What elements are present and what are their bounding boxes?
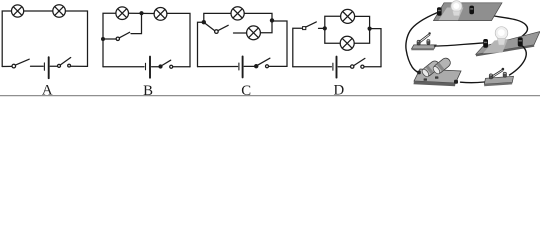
- circuit A: [2, 5, 87, 79]
- wire: C lamp L1 to right riser: [244, 13, 272, 18]
- switch K2 lever (open): [492, 68, 505, 78]
- node: C right junction: [270, 18, 274, 22]
- switch S2 (B) contact: [170, 65, 173, 68]
- wire: A bottom left stub: [2, 65, 12, 67]
- battery cell 2: [432, 56, 452, 75]
- pictorial circuit (right): [406, 1, 540, 87]
- switch S1 (A) lever: [15, 59, 29, 65]
- battery terminal right: [454, 80, 458, 84]
- switch K2 posts: [489, 72, 506, 79]
- switch S2 (A) pivot: [58, 64, 61, 67]
- binding post: right lamp right: [518, 37, 523, 46]
- wire: switch K1 to right lamp left post: [435, 43, 484, 46]
- wire: C switch branch from left junction: [205, 24, 214, 31]
- wire: right lamp right post down to switch K2: [510, 45, 527, 75]
- switch S2 (B) pivot: [159, 65, 162, 68]
- binding post: top lamp right: [469, 6, 474, 15]
- switch K1 (middle-left) base: [411, 45, 436, 50]
- circuit B: [101, 7, 190, 78]
- switch S1 (C) pivot: [215, 30, 219, 34]
- node: C left junction: [202, 20, 206, 24]
- wire: A bottom right: [71, 65, 88, 67]
- switch S2 (A) lever: [60, 58, 70, 65]
- wire: C bottom right: [269, 65, 287, 67]
- wire: D right junction to right vertical: [370, 29, 381, 67]
- wire: B bottom right: [173, 66, 190, 68]
- wire: A battery to switch S2: [50, 65, 57, 67]
- switch S2 (A) contact: [68, 64, 71, 67]
- lamp L2 (B): [154, 7, 167, 20]
- lamp bulb (top holder): [451, 1, 462, 16]
- switch S2 (D) contact: [361, 65, 364, 68]
- wire: C battery to switch S2: [244, 65, 254, 67]
- battery BT (A) short plate: [43, 63, 45, 70]
- lamp holder H2 (right) base: [476, 32, 540, 57]
- switch S1 (D) pivot: [303, 27, 306, 30]
- wire: D bottom right: [364, 66, 381, 68]
- switch K1 posts: [417, 40, 430, 45]
- lamp L2 (A): [53, 5, 66, 18]
- svg-text:C: C: [241, 83, 251, 97]
- battery BT (C) long plate: [242, 56, 244, 77]
- switch S2 (C) lever: [258, 58, 270, 65]
- battery terminal left: [417, 71, 421, 75]
- switch S2 (C) contact: [266, 65, 269, 68]
- bottom rule: [0, 95, 540, 97]
- battery cell 1: [421, 59, 441, 78]
- switch S2 (D) lever: [354, 58, 365, 65]
- binding post: right lamp left: [483, 39, 488, 48]
- wire: C left vertical: [198, 22, 202, 66]
- battery BT (B) long plate: [149, 57, 151, 78]
- wire: C bottom left: [198, 66, 238, 68]
- node: D right junction: [368, 27, 372, 31]
- switch S1 (B) lever: [119, 32, 129, 38]
- wire: A top right corner and right vertical: [65, 11, 87, 66]
- wire: D left vertical: [293, 28, 303, 67]
- battery BT (D) long plate: [336, 57, 338, 78]
- battery BT (B) short plate: [145, 63, 147, 70]
- wire: D lamp L2 to right junction: [354, 29, 369, 44]
- wire: top lamp right post down to right lamp right post: [474, 12, 527, 38]
- switch S1 (B) pivot: [116, 37, 119, 40]
- lamp L1 (D): [341, 9, 355, 23]
- wire: top lamp left post to battery pack: [406, 13, 438, 73]
- wire: B lamp L1 to lamp L2: [129, 12, 155, 14]
- wire: A switch S1 to battery: [31, 65, 44, 67]
- svg-text:A: A: [42, 83, 53, 97]
- wire: C riser to top branch and to lamp L1: [204, 13, 231, 22]
- wire: D lower branch to lamp L2: [325, 28, 340, 43]
- switch S2 (D) pivot: [351, 65, 354, 68]
- lamp L2 (D): [340, 36, 354, 50]
- battery BT (C) short plate: [238, 63, 240, 70]
- lamp holder H1 (top) base: [434, 3, 503, 21]
- svg-text:B: B: [143, 83, 153, 97]
- node: B left junction: [101, 37, 105, 41]
- svg-text:D: D: [333, 83, 344, 97]
- wire: C right junction to right vertical: [274, 21, 288, 66]
- battery cell clip marks: [424, 76, 439, 80]
- switch S2 (C) pivot: [255, 65, 258, 68]
- wire: between lamps A: [24, 10, 53, 12]
- circuit C: [198, 7, 288, 78]
- wire: B bottom left: [103, 66, 144, 68]
- lamp L1 (B): [116, 7, 129, 20]
- wire: D upper branch to lamp L1: [325, 16, 341, 28]
- node: B top junction: [139, 11, 143, 15]
- lamp bulb (right holder): [495, 27, 508, 45]
- wire: D bottom left: [293, 66, 332, 68]
- switch S2 (B) lever: [162, 60, 171, 65]
- wire: B top right corner and right vertical: [167, 13, 190, 66]
- circuit D: [293, 9, 381, 77]
- battery BT (D) short plate: [332, 63, 334, 70]
- wire: D switch to left junction: [319, 27, 323, 29]
- binding post: top lamp left: [437, 7, 442, 16]
- wire: B left vertical lower: [102, 39, 104, 67]
- wire: D battery to switch S2: [338, 66, 350, 68]
- wire: A left vertical and top to lamp L1: [2, 11, 11, 67]
- wire: C switch to lamp L2: [234, 32, 247, 34]
- wire: B bypass to switch S1: [105, 38, 116, 40]
- wire: switch K2 left post to battery right terminal: [461, 81, 485, 84]
- lamp L1 (C): [231, 7, 244, 20]
- switch K1 lever (open): [419, 32, 431, 42]
- lamp L1 (A): [12, 5, 24, 17]
- switch K2 (bottom-right) base: [484, 76, 513, 86]
- wire: B bypass riser to top junction: [131, 15, 142, 34]
- wire: B left vertical upper and top to lamp L1: [103, 13, 116, 39]
- wire: C lamp L2 to right junction: [260, 23, 272, 33]
- wire: B battery to switch S2: [152, 66, 159, 68]
- node: D left junction: [323, 26, 327, 30]
- switch S1 (A) pivot: [12, 64, 16, 68]
- wire: D lamp L1 to right junction: [355, 16, 370, 28]
- switch S1 (C) lever: [218, 25, 228, 30]
- battery pack base: [414, 69, 462, 86]
- battery BT (A) long plate: [48, 57, 50, 78]
- lamp L2 (C): [247, 26, 261, 40]
- switch S1 (D) lever: [306, 22, 317, 27]
